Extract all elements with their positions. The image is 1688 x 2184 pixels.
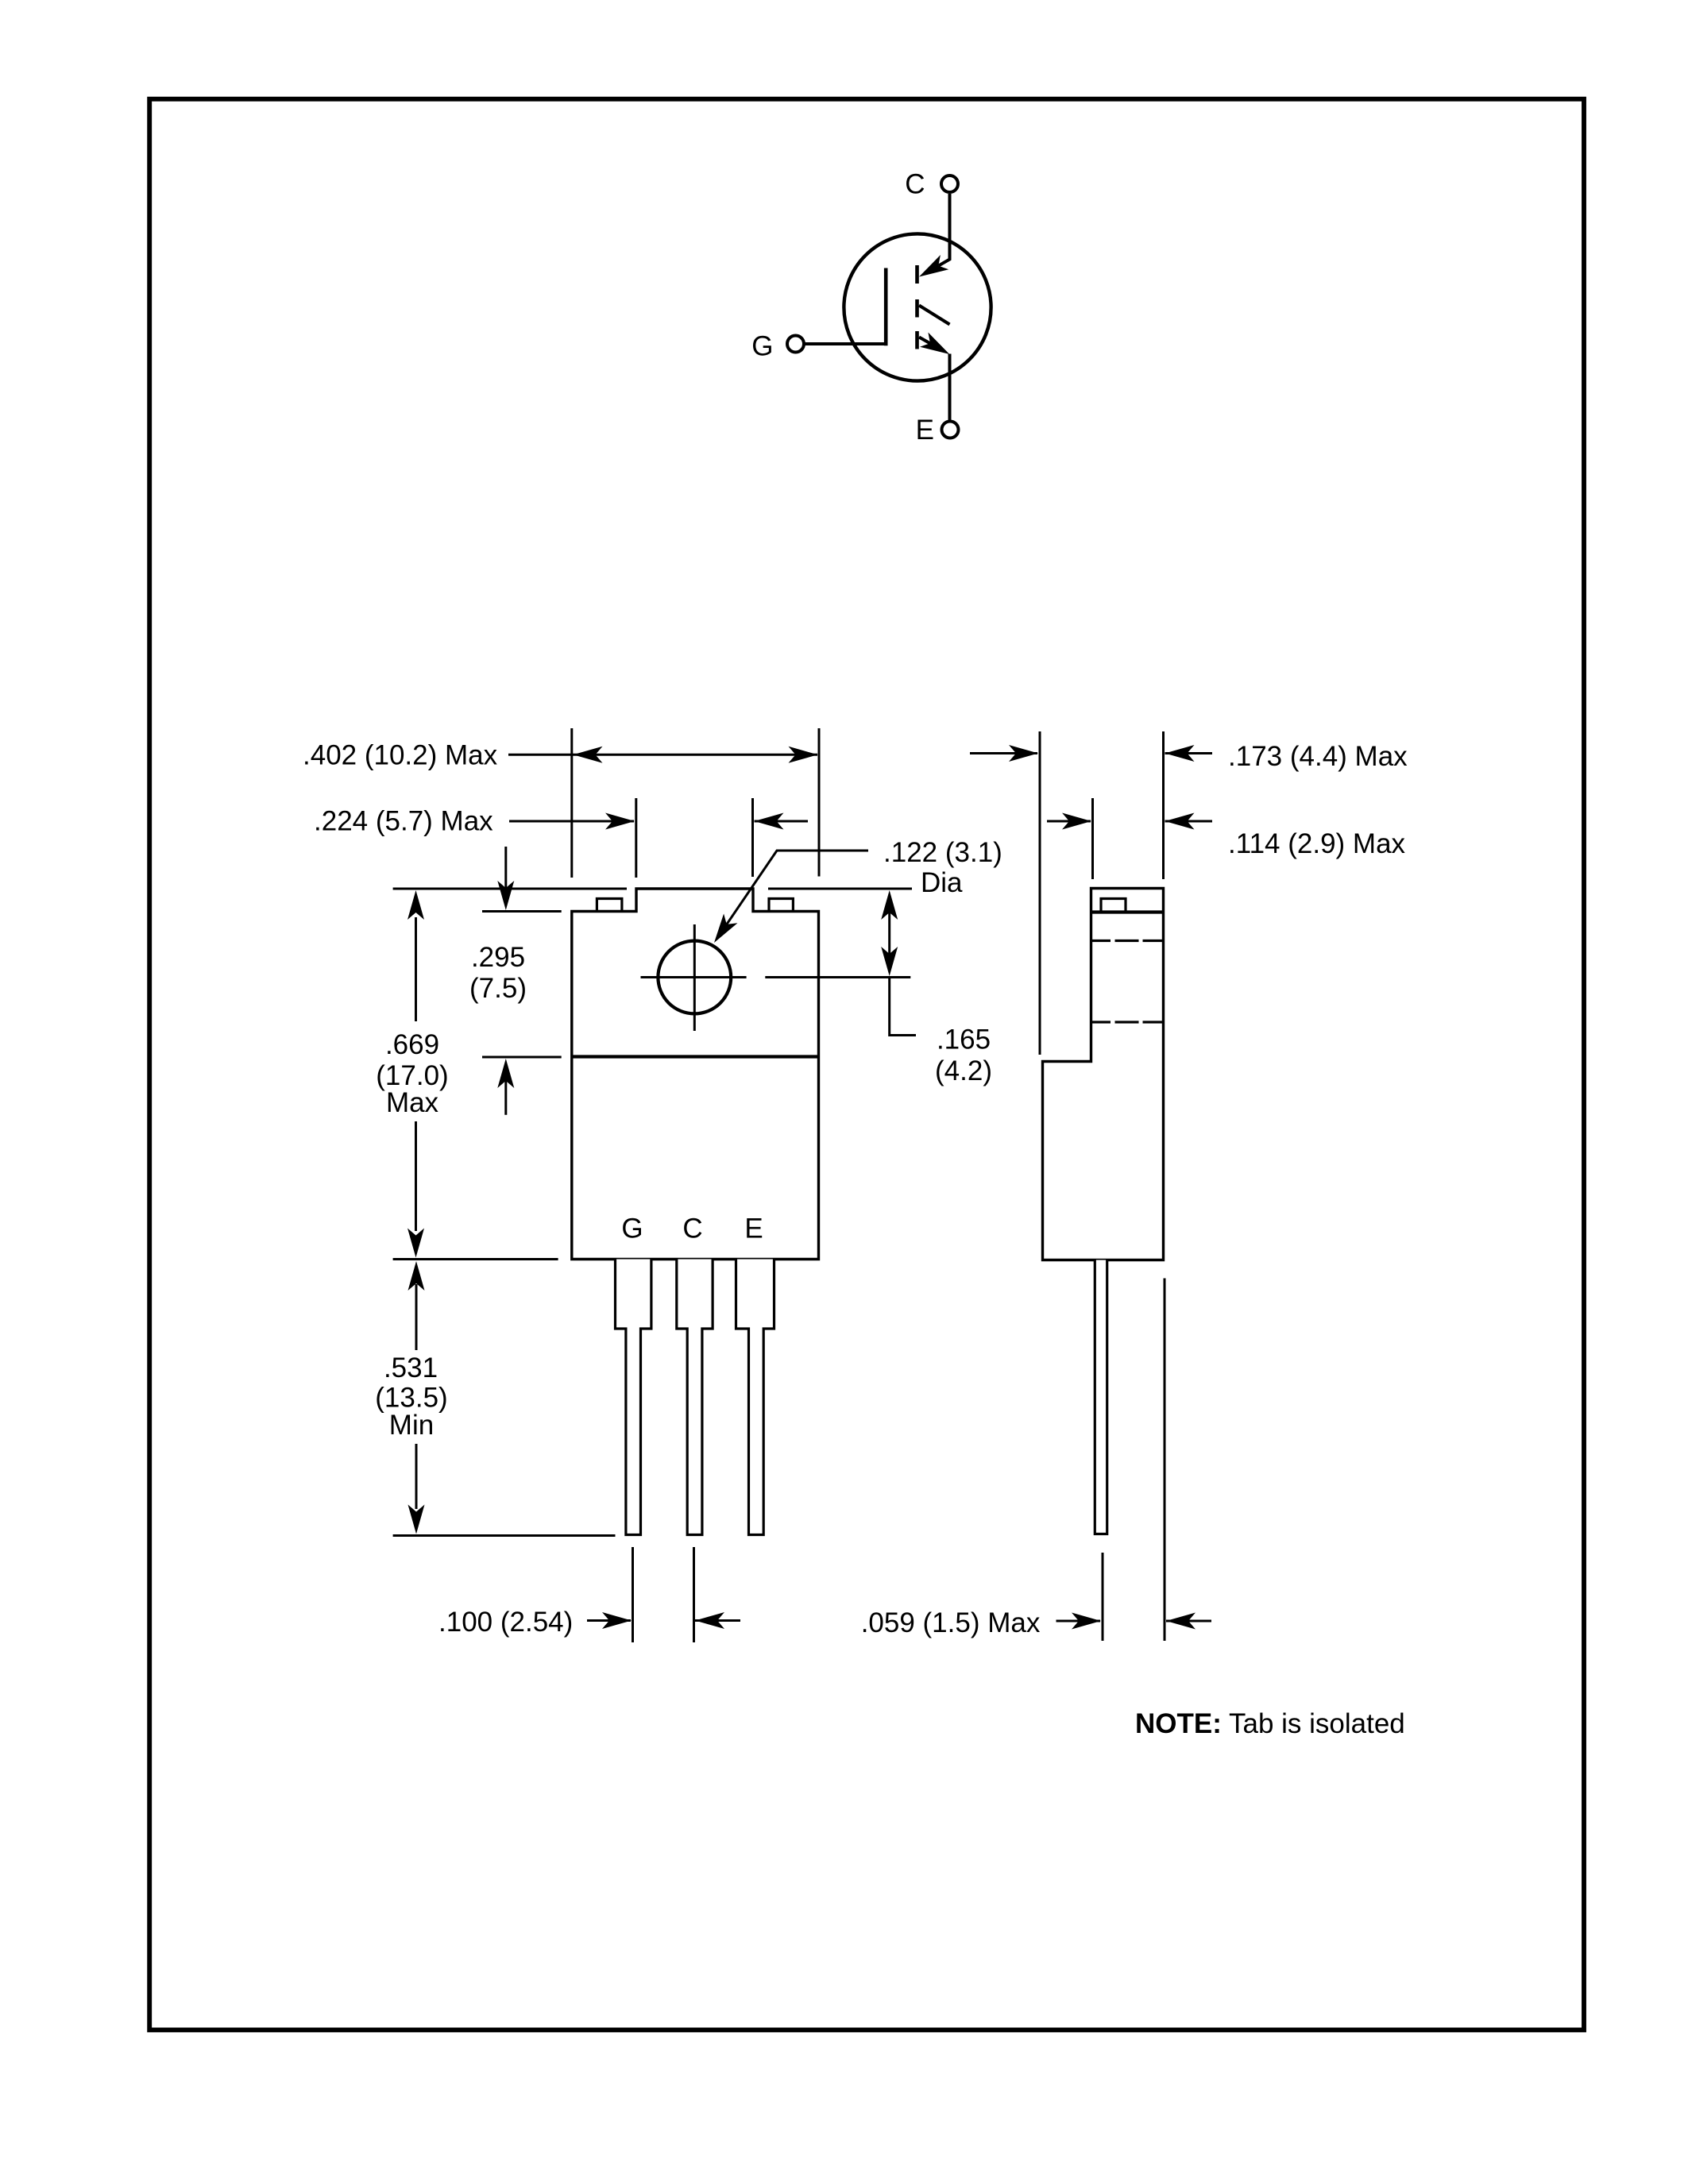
dim .669 lower arrow <box>415 1121 417 1231</box>
side view body outline <box>1043 889 1164 1260</box>
svg-text:C: C <box>682 1214 702 1244</box>
svg-text:Min: Min <box>389 1410 434 1441</box>
channel bar segment middle <box>915 299 919 318</box>
dim .173 right extension line <box>1162 731 1165 879</box>
side tab ear <box>1101 899 1126 913</box>
dim .165 leader foot <box>890 978 916 1036</box>
wire emitter vertical <box>948 354 952 422</box>
svg-text:.114 (2.9) Max: .114 (2.9) Max <box>1228 828 1406 859</box>
wire gate <box>805 342 886 345</box>
dim .531 lower arrow <box>415 1444 418 1509</box>
base diagonal (middle tap) <box>919 306 950 325</box>
dim .669 upper arrow <box>415 917 417 1021</box>
svg-text:.173 (4.4) Max: .173 (4.4) Max <box>1228 741 1408 772</box>
dim .402 dimension line <box>508 754 817 756</box>
leader .122 dia polyline <box>727 851 868 924</box>
dim .059 left arrow <box>1056 1620 1101 1623</box>
dim .173 right arrow <box>1165 752 1213 754</box>
lead E front <box>736 1260 774 1535</box>
dim .669 bottom reference line <box>393 1258 558 1260</box>
svg-text:.059 (1.5) Max: .059 (1.5) Max <box>861 1607 1041 1638</box>
dim .100 left arrow <box>587 1619 631 1622</box>
hole crosshair vertical <box>693 924 696 1031</box>
hidden hole line bottom (dashed) <box>1092 1021 1163 1023</box>
igbt U1 symbol envelope circle <box>844 233 991 380</box>
svg-text:.531: .531 <box>384 1352 438 1383</box>
tab ear right <box>769 899 793 912</box>
side tab top strip line <box>1091 910 1164 913</box>
svg-text:NOTE: Tab is isolated: NOTE: Tab is isolated <box>1135 1708 1405 1739</box>
dim .402 left extension line <box>570 728 573 878</box>
dim .100 left extension line <box>632 1547 634 1642</box>
dim .295 top reference line <box>482 910 562 913</box>
gate bar <box>884 268 888 346</box>
tab ear left <box>597 899 622 912</box>
dim .173 left extension line <box>1039 731 1041 1055</box>
channel bar segment top <box>915 265 919 284</box>
wire emitter diagonal <box>919 338 937 348</box>
dim .295 up arrow <box>504 1080 507 1115</box>
wire collector <box>938 194 949 266</box>
dim .295 down arrow <box>504 847 507 889</box>
svg-text:Max: Max <box>386 1087 439 1118</box>
svg-text:.165: .165 <box>937 1024 991 1055</box>
lead side view <box>1095 1260 1107 1534</box>
dim .295 bottom reference line <box>482 1056 562 1059</box>
svg-text:(13.5): (13.5) <box>375 1383 447 1414</box>
svg-text:.402 (10.2) Max: .402 (10.2) Max <box>303 739 498 770</box>
svg-text:.122 (3.1): .122 (3.1) <box>883 837 1002 868</box>
terminal E circle <box>942 422 959 438</box>
svg-text:.224 (5.7) Max: .224 (5.7) Max <box>314 806 493 837</box>
lead C front <box>677 1260 713 1535</box>
svg-text:(4.2): (4.2) <box>935 1055 992 1086</box>
hole crosshair horizontal <box>641 976 747 978</box>
lead G front <box>616 1260 651 1535</box>
channel bar segment bottom <box>915 331 919 349</box>
mounting hole <box>658 941 731 1014</box>
dim .669 top reference line <box>393 888 627 890</box>
dim .114 left arrow <box>1047 820 1091 823</box>
dim .059 right extension line <box>1164 1279 1166 1642</box>
dim .165 top reference line <box>768 888 912 890</box>
dim .173 left arrow <box>970 752 1037 754</box>
dim .531 bottom reference line <box>393 1534 616 1537</box>
svg-text:.295: .295 <box>471 942 525 973</box>
svg-text:Dia: Dia <box>921 867 963 898</box>
emitter arrow <box>920 333 949 355</box>
dim .224 right arrow <box>755 820 809 823</box>
dim .114 right arrow <box>1165 820 1213 823</box>
dim .100 right arrow <box>695 1619 740 1622</box>
svg-text:.669: .669 <box>385 1029 439 1060</box>
dim .224 left extension line <box>635 798 637 878</box>
dim .114 extension line <box>1091 798 1094 879</box>
dim .165 bottom reference line <box>765 976 910 978</box>
dim .100 right extension line <box>693 1547 695 1642</box>
dim .165 double arrow <box>888 901 890 965</box>
terminal C circle <box>941 176 958 192</box>
hidden hole line top (dashed) <box>1092 940 1163 942</box>
dim .224 right extension line <box>751 798 754 877</box>
svg-text:.100 (2.54): .100 (2.54) <box>438 1607 573 1638</box>
front view body outline <box>572 889 819 1260</box>
dim .059 right arrow <box>1166 1620 1211 1623</box>
dim .059 left extension line <box>1102 1553 1104 1641</box>
svg-text:G: G <box>621 1214 643 1244</box>
svg-text:(7.5): (7.5) <box>469 973 527 1004</box>
dim .531 upper arrow <box>415 1284 418 1350</box>
tab/body divider line <box>572 1055 819 1058</box>
svg-text:E: E <box>744 1214 763 1244</box>
dim .224 left arrow <box>509 820 634 823</box>
terminal G circle <box>787 336 804 353</box>
dim .402 right extension line <box>818 728 821 877</box>
svg-text:E: E <box>916 415 934 446</box>
svg-text:G: G <box>751 331 773 362</box>
collector arrow into channel (IGBT) <box>919 255 948 277</box>
svg-text:C: C <box>905 168 925 199</box>
